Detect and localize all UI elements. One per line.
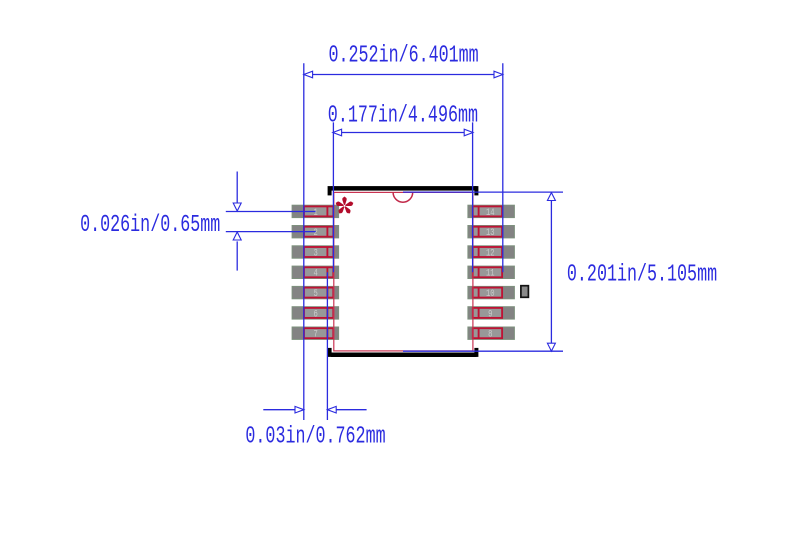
svg-text:2: 2 xyxy=(314,227,318,239)
witness line lead-tip right x=502.8 xyxy=(502,63,504,272)
pad number 11 xyxy=(486,268,495,280)
top bar right tab xyxy=(474,186,478,195)
pad 14 xyxy=(468,205,515,217)
pin 2 foot bend line xyxy=(326,227,328,237)
pin 4 foot bend line xyxy=(326,267,328,277)
pin 13 outline xyxy=(473,227,502,237)
svg-text:11: 11 xyxy=(486,268,495,280)
svg-text:1: 1 xyxy=(314,207,318,219)
dimension line 0.177in span xyxy=(333,132,473,134)
pitch dim vertical line upper xyxy=(236,172,238,203)
dimension line 0.252in span xyxy=(304,74,503,76)
witness line body-bottom right y=351.2 xyxy=(403,350,563,352)
pad number 13 xyxy=(486,227,495,239)
pin 6 outline xyxy=(304,308,333,318)
pad number 5 xyxy=(314,288,318,300)
pin 3 outline xyxy=(304,247,333,257)
witness line body-top right y=192.1 xyxy=(403,191,563,193)
pad 13 xyxy=(468,226,515,238)
dim text 0.252in/6.401mm xyxy=(329,43,479,70)
witness line body-left x=333.4 xyxy=(332,122,334,272)
pad number 1 xyxy=(314,207,318,219)
arrowhead right to pin left edge xyxy=(295,406,304,413)
pin 5 outline xyxy=(304,288,333,298)
witness line body-right x=472.6 xyxy=(472,122,474,272)
svg-text:0.03in/0.762mm: 0.03in/0.762mm xyxy=(245,424,385,451)
pad 10 xyxy=(468,286,515,298)
svg-text:7: 7 xyxy=(314,329,318,341)
pad 12 xyxy=(468,246,515,258)
pad 6 xyxy=(292,307,339,319)
arrowhead left of 0.252 dim xyxy=(304,71,313,78)
pad number 3 xyxy=(314,247,318,259)
svg-text:3: 3 xyxy=(314,247,318,259)
pad number 6 xyxy=(314,308,318,320)
leader to pad 2 xyxy=(226,231,316,233)
pad 11 xyxy=(468,266,515,278)
pin 14 outline xyxy=(473,206,502,216)
package body outline xyxy=(334,192,473,351)
svg-text:8: 8 xyxy=(488,329,492,341)
pin 14 foot bend line xyxy=(478,206,480,216)
pin 7 foot bend line xyxy=(326,328,328,338)
svg-text:12: 12 xyxy=(486,247,495,259)
pad 3 xyxy=(292,246,339,258)
arrowhead down to pad1 leader xyxy=(233,203,241,211)
bottom body bar xyxy=(331,353,477,358)
arrowhead right of 0.252 dim xyxy=(494,71,503,78)
pin 9 foot bend line xyxy=(478,308,480,318)
pin 11 foot bend line xyxy=(478,267,480,277)
svg-text:0.026in/0.65mm: 0.026in/0.65mm xyxy=(80,213,220,240)
pin 3 foot bend line xyxy=(326,247,328,257)
svg-text:13: 13 xyxy=(486,227,495,239)
top body bar xyxy=(331,186,477,191)
pad number 10 xyxy=(486,288,495,300)
bottom dim left segment xyxy=(263,409,304,411)
top bar left tab xyxy=(328,186,332,195)
pad number 2 xyxy=(314,227,318,239)
pad number 9 xyxy=(488,308,492,320)
pin 13 foot bend line xyxy=(478,227,480,237)
pin 12 outline xyxy=(473,247,502,257)
svg-text:6: 6 xyxy=(314,308,318,320)
arrowhead left to pin right edge xyxy=(327,406,336,413)
svg-text:10: 10 xyxy=(486,288,495,300)
pin 8 foot bend line xyxy=(478,328,480,338)
dimension line 0.201in vertical xyxy=(550,193,552,351)
pin 1 outline xyxy=(304,206,333,216)
arrowhead right of 0.177 dim xyxy=(464,129,473,136)
pin 9 outline xyxy=(473,308,502,318)
pad number 14 xyxy=(486,207,495,219)
pad 9 xyxy=(468,307,515,319)
svg-text:9: 9 xyxy=(488,308,492,320)
arrowhead up to pad2 leader xyxy=(233,232,241,240)
orientation square marker xyxy=(521,286,529,298)
pad 1 xyxy=(292,205,339,217)
pad number 8 xyxy=(488,329,492,341)
arrowhead up of 0.201 dim xyxy=(547,193,555,201)
pad 8 xyxy=(468,327,515,339)
svg-text:0.201in/5.105mm: 0.201in/5.105mm xyxy=(567,262,717,289)
svg-text:14: 14 xyxy=(486,207,495,219)
pin 6 foot bend line xyxy=(326,308,328,318)
pitch dim vertical line lower xyxy=(236,241,238,270)
pad 5 xyxy=(292,286,339,298)
pin 1 foot bend line xyxy=(326,206,328,216)
pad 4 xyxy=(292,266,339,278)
witness line pin-right x=327.4 xyxy=(326,272,328,420)
dim text 0.177in/4.496mm xyxy=(328,103,478,130)
pad number 7 xyxy=(314,329,318,341)
pad number 4 xyxy=(314,268,318,280)
dim text 0.201in/5.105mm xyxy=(567,262,717,289)
pin 1 asterisk marker xyxy=(335,197,354,215)
pad number 12 xyxy=(486,247,495,259)
witness line lead-tip left x=303.8 xyxy=(303,63,305,420)
pad 2 xyxy=(292,226,339,238)
arrowhead down of 0.201 dim xyxy=(547,343,555,351)
svg-text:5: 5 xyxy=(314,288,318,300)
svg-text:4: 4 xyxy=(314,268,318,280)
pin 8 outline xyxy=(473,328,502,338)
pin 7 outline xyxy=(304,328,333,338)
pin 2 outline xyxy=(304,227,333,237)
bottom bar left tab xyxy=(328,348,332,357)
pin 12 foot bend line xyxy=(478,247,480,257)
bottom bar right tab xyxy=(474,348,478,357)
leader to pad 1 xyxy=(226,211,316,213)
pin 10 outline xyxy=(473,288,502,298)
svg-text:0.177in/4.496mm: 0.177in/4.496mm xyxy=(328,103,478,130)
pin 5 foot bend line xyxy=(326,288,328,298)
pin 10 foot bend line xyxy=(478,288,480,298)
pin 4 outline xyxy=(304,267,333,277)
pad 7 xyxy=(292,327,339,339)
dim text 0.03in/0.762mm xyxy=(245,424,385,451)
arrowhead left of 0.177 dim xyxy=(333,129,342,136)
pin 11 outline xyxy=(473,267,502,277)
pin1 notch arc xyxy=(393,192,413,202)
svg-text:0.252in/6.401mm: 0.252in/6.401mm xyxy=(329,43,479,70)
dim text 0.026in/0.65mm xyxy=(80,213,220,240)
bottom dim right segment xyxy=(327,409,366,411)
